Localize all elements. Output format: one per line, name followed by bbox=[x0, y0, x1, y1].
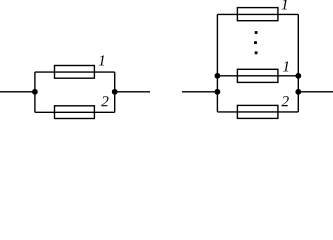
wire: bottom branch of right network bbox=[217, 111, 298, 113]
ellipsis dot 1 (right network) bbox=[255, 31, 258, 34]
label 1 (right network, top resistor) bbox=[282, 0, 287, 9]
node: left junction of left network bbox=[32, 89, 38, 95]
node: right junction of left network bbox=[112, 89, 118, 95]
node: middle branch right junction of right network bbox=[295, 73, 301, 79]
label 1 (left network, top resistor) bbox=[99, 55, 104, 65]
label 2 (right network, bottom resistor) bbox=[282, 96, 289, 106]
resistor 1 (left network, top branch) bbox=[55, 66, 95, 79]
resistor 2 (right network, bottom branch) bbox=[237, 105, 278, 118]
wire: top branch of right network bbox=[217, 13, 298, 15]
wire: middle branch of right network bbox=[217, 75, 298, 77]
node: input junction of right network bbox=[215, 89, 221, 95]
resistor 2 (left network, bottom branch) bbox=[55, 106, 95, 119]
wire: input lead of right network bbox=[182, 91, 217, 93]
node: middle branch left junction of right network bbox=[215, 73, 221, 79]
node: output junction of right network bbox=[295, 89, 301, 95]
label 1 (right network, middle resistor) bbox=[283, 61, 288, 71]
wire: bottom branch of left network bbox=[35, 111, 115, 113]
resistor 1 (right network, middle branch) bbox=[237, 69, 278, 82]
wire: output lead of right network bbox=[298, 91, 333, 93]
ellipsis dot 2 (right network) bbox=[254, 41, 257, 44]
wire: right vertical of right network bbox=[297, 14, 299, 112]
ellipsis dot 3 (right network) bbox=[255, 51, 258, 54]
wire: left vertical of left network bbox=[34, 72, 36, 112]
wire: left vertical of right network bbox=[216, 14, 218, 112]
wire: right lead of left network bbox=[115, 91, 150, 93]
wire: right vertical of left network bbox=[114, 72, 116, 112]
resistor 1 (right network, top branch) bbox=[237, 8, 278, 21]
wire: top branch of left network bbox=[35, 71, 115, 73]
label 2 (left network, bottom resistor) bbox=[101, 96, 108, 106]
wire: left lead of left network bbox=[0, 91, 35, 93]
